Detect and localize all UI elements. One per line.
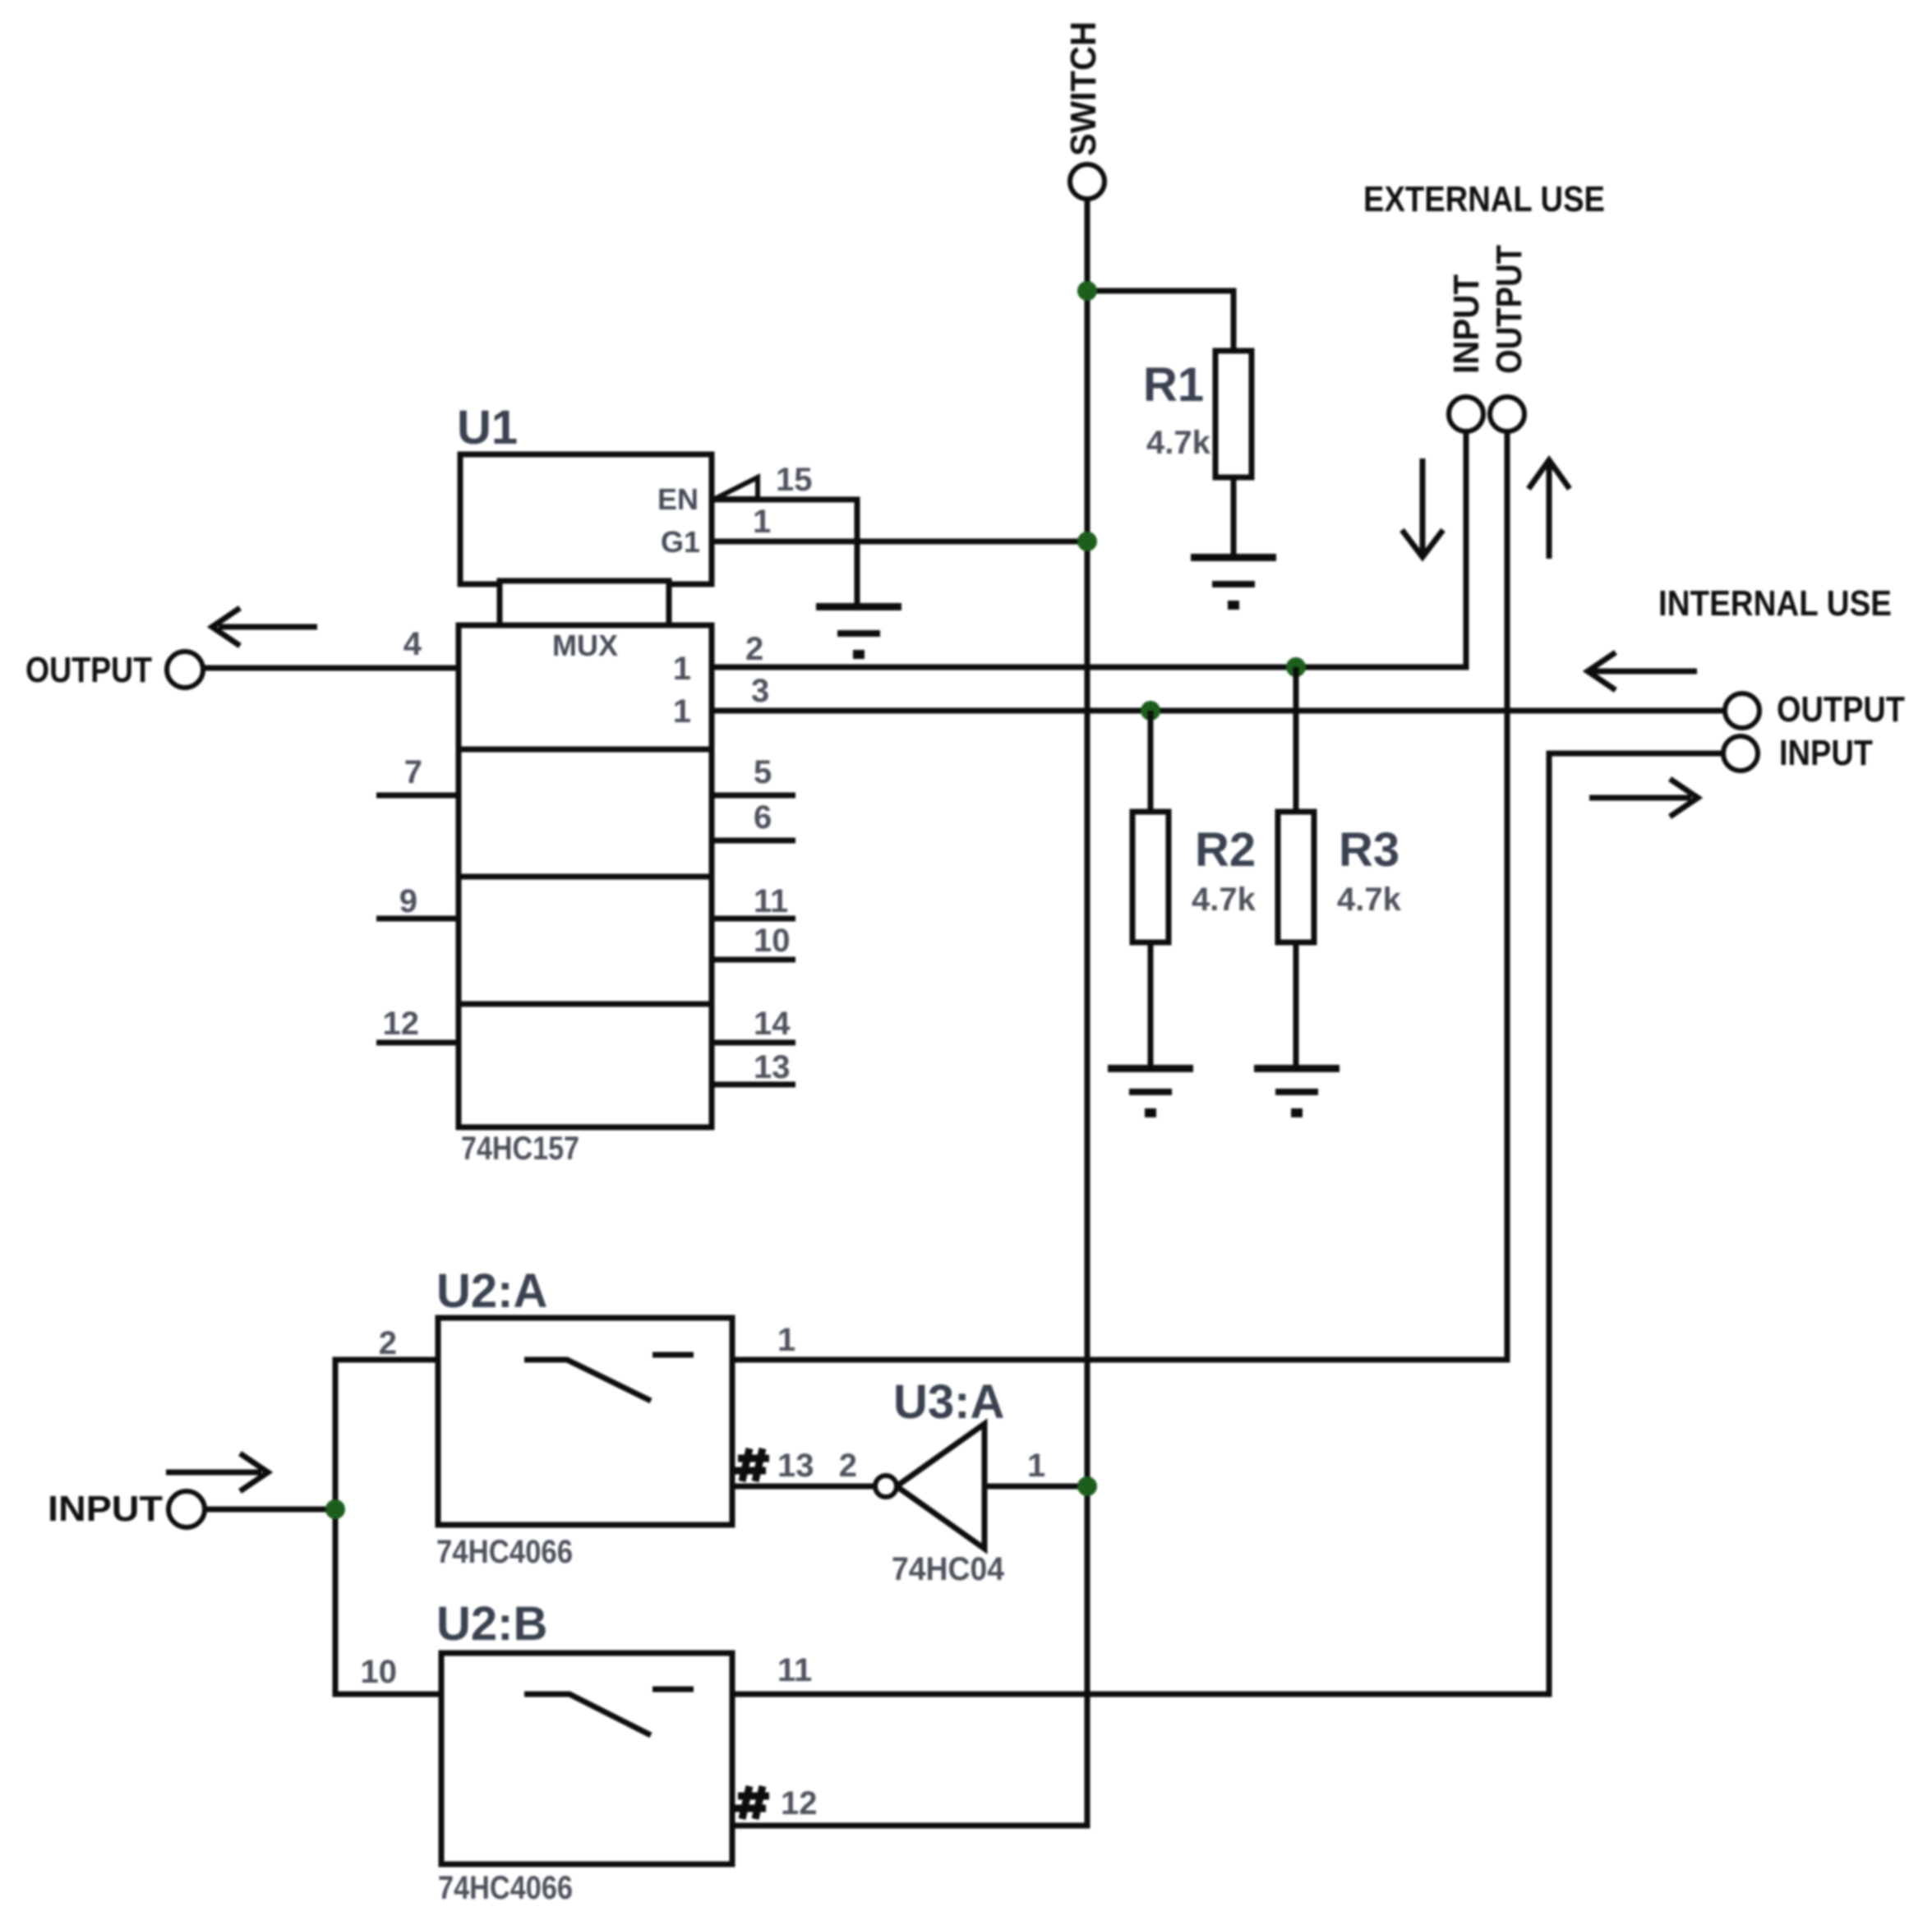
node external INPUT terminal <box>1449 397 1483 431</box>
svg-text:INPUT: INPUT <box>1446 274 1487 374</box>
svg-text:EN: EN <box>657 482 699 516</box>
wire pin 14 stub <box>712 1006 795 1043</box>
wire pin 5 stub <box>712 754 795 795</box>
resistor R1 <box>1143 351 1252 477</box>
wire internal INPUT to U2:B pin 11 <box>732 753 1723 1694</box>
wire pin 7 stub <box>376 754 459 795</box>
svg-text:SWITCH: SWITCH <box>1063 21 1104 156</box>
svg-text:R2: R2 <box>1195 823 1256 877</box>
svg-text:12: 12 <box>781 1785 818 1821</box>
svg-text:14: 14 <box>754 1006 791 1042</box>
inverter U3:A 74HC04 <box>839 1375 1005 1587</box>
wire pin 10 stub <box>712 923 795 960</box>
svg-text:3: 3 <box>751 673 769 709</box>
right arrow above INPUT <box>166 1453 268 1491</box>
svg-text:U1: U1 <box>457 401 518 454</box>
node internal INPUT terminal <box>1723 733 1873 773</box>
IC U1 74HC157 multiplexer <box>457 401 712 1167</box>
svg-text:10: 10 <box>754 923 791 959</box>
svg-text:10: 10 <box>361 1654 398 1690</box>
node junction pin3/R2 <box>1141 701 1160 721</box>
wire pin 11 stub <box>712 883 795 919</box>
node SWITCH terminal <box>1063 21 1104 199</box>
ground below EN pin <box>816 603 901 659</box>
pin 1 G1 wire to SWITCH line <box>712 504 1087 541</box>
svg-text:R1: R1 <box>1143 358 1204 412</box>
down arrow external input <box>1402 458 1443 557</box>
svg-text:74HC4066: 74HC4066 <box>436 1534 573 1570</box>
svg-text:R3: R3 <box>1339 823 1399 877</box>
IC U2:A 74HC4066 analog switch <box>436 1264 732 1570</box>
node INPUT terminal bottom left <box>48 1489 205 1529</box>
wire pin 3 to internal OUTPUT terminal <box>712 673 1725 711</box>
wire SWITCH main vertical down to U2:B pin 12 <box>732 200 1087 1826</box>
svg-text:U3:A: U3:A <box>893 1375 1004 1429</box>
svg-text:11: 11 <box>777 1652 812 1688</box>
IC U2:B 74HC4066 analog switch <box>436 1597 732 1906</box>
svg-text:4: 4 <box>403 626 422 662</box>
svg-text:2: 2 <box>379 1325 397 1361</box>
svg-text:INTERNAL USE: INTERNAL USE <box>1658 583 1892 624</box>
ground below R3 <box>1254 1065 1339 1117</box>
up arrow external output <box>1529 460 1570 559</box>
wire pin 6 stub <box>712 799 795 840</box>
svg-text:6: 6 <box>754 799 772 836</box>
svg-text:1: 1 <box>673 693 691 730</box>
svg-text:74HC4066: 74HC4066 <box>438 1870 573 1906</box>
svg-text:1: 1 <box>753 504 771 540</box>
svg-text:12: 12 <box>383 1006 420 1042</box>
node OUTPUT terminal left <box>25 650 203 690</box>
wire external OUTPUT down to U2:A pin 1 <box>732 431 1507 1360</box>
node junction pin2/R3 <box>1286 657 1306 677</box>
node junction SWITCH/R1 <box>1077 281 1097 301</box>
svg-text:INPUT: INPUT <box>48 1489 163 1529</box>
left arrow internal output <box>1588 652 1697 690</box>
svg-text:74HC04: 74HC04 <box>892 1551 1005 1587</box>
ground below R1 <box>1191 554 1276 610</box>
node external OUTPUT terminal <box>1490 397 1524 431</box>
wire pin 9 stub <box>376 883 459 919</box>
node junction U3:A input / SWITCH line <box>1077 1476 1097 1496</box>
svg-text:11: 11 <box>754 883 788 919</box>
resistor R2 <box>1132 711 1256 1066</box>
left arrow above OUTPUT <box>212 608 317 646</box>
svg-text:OUTPUT: OUTPUT <box>1489 245 1529 374</box>
wire U2:A pin 13 control <box>732 1448 877 1486</box>
node EXTERNAL USE labels <box>1363 179 1605 374</box>
wire R1 branch from SWITCH line <box>1087 291 1233 353</box>
svg-text:MUX: MUX <box>552 629 618 662</box>
svg-text:1: 1 <box>673 651 691 687</box>
svg-text:EXTERNAL USE: EXTERNAL USE <box>1363 179 1605 219</box>
svg-text:OUTPUT: OUTPUT <box>1777 689 1905 730</box>
svg-text:U2:B: U2:B <box>436 1597 547 1651</box>
svg-text:G1: G1 <box>661 525 700 559</box>
wire INPUT terminal to junction <box>205 1507 335 1513</box>
node junction INPUT/left vertical <box>325 1499 345 1519</box>
ground below R2 <box>1108 1065 1193 1117</box>
svg-text:7: 7 <box>404 754 422 790</box>
svg-text:U2:A: U2:A <box>436 1264 547 1318</box>
wire pin 2 to external INPUT terminal <box>712 431 1466 667</box>
node junction G1/SWITCH <box>1077 532 1097 551</box>
node internal OUTPUT terminal <box>1725 689 1905 730</box>
svg-text:OUTPUT: OUTPUT <box>25 650 152 690</box>
svg-text:4.7k: 4.7k <box>1192 882 1256 918</box>
svg-text:13: 13 <box>777 1448 814 1484</box>
svg-text:4.7k: 4.7k <box>1146 425 1211 461</box>
wire pin 12 stub <box>376 1006 459 1043</box>
svg-text:1: 1 <box>777 1322 795 1358</box>
svg-text:15: 15 <box>776 462 813 498</box>
svg-text:13: 13 <box>754 1049 791 1085</box>
svg-text:4.7k: 4.7k <box>1337 882 1402 918</box>
wire U2:B pin 12 control <box>735 1785 818 1821</box>
svg-text:2: 2 <box>745 631 763 667</box>
svg-text:1: 1 <box>1027 1448 1045 1484</box>
svg-text:9: 9 <box>399 883 417 919</box>
wire pin 13 stub <box>712 1049 795 1085</box>
wire U3:A input pin 1 to SWITCH line <box>984 1448 1087 1486</box>
svg-text:INPUT: INPUT <box>1779 733 1873 773</box>
svg-text:74HC157: 74HC157 <box>461 1131 579 1167</box>
wire pin 4 MUX output to OUTPUT terminal <box>203 626 459 668</box>
resistor R3 <box>1278 667 1402 1066</box>
svg-text:2: 2 <box>839 1448 857 1484</box>
right arrow internal input <box>1589 779 1698 817</box>
pin 15 EN wire with marker, to ground <box>712 462 857 605</box>
wire R1 to ground <box>1231 477 1237 557</box>
wire U2:A pin 2 and left vertical to pin 10 <box>335 1325 441 1694</box>
svg-text:5: 5 <box>754 754 772 790</box>
